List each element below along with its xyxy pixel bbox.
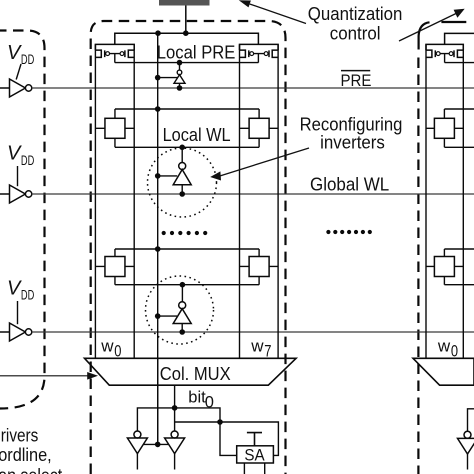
- arrow annotation to middle bus bar: [239, 0, 306, 23]
- bitline BLB0: [133, 44, 135, 358]
- svg-text:SA: SA: [244, 445, 265, 464]
- quantization column through MUX to bottom: [157, 358, 159, 444]
- svg-text:V: V: [7, 143, 22, 165]
- svg-text:w: w: [437, 336, 451, 355]
- SA output leads: [244, 463, 264, 474]
- local WL box row 2 (wires y=249 and y=284.7): [115, 249, 259, 285]
- svg-text:w: w: [250, 336, 264, 355]
- label Quantization control: [308, 3, 403, 44]
- label w7 (middle cell): [250, 336, 271, 360]
- quantization control bus bar (gray): [159, 0, 210, 6]
- right group bottom inverter U9: [458, 409, 474, 470]
- svg-text:w: w: [100, 336, 114, 355]
- wire column-select into Col MUX with arrowhead: [0, 372, 98, 380]
- quantization control column (x=157.7): [157, 33, 159, 444]
- wire bitb to SA (y=422): [175, 422, 279, 455]
- bitline BL0 (left column of middle cell): [94, 44, 96, 358]
- precharge transistor pair PT3 (right group): [426, 44, 463, 62]
- SRAM cell C2 (row1 w7): [240, 118, 279, 138]
- svg-text:Local WL: Local WL: [163, 124, 231, 145]
- reconfiguring inverter U6 (row2) dotted circle: [146, 276, 214, 344]
- reconfiguring inverter U6: [155, 282, 191, 335]
- svg-text:control: control: [330, 23, 381, 44]
- svg-text:ordline,: ordline,: [0, 445, 52, 465]
- SRAM cell C1 (row1 w0): [95, 118, 134, 138]
- bitline BLB7: [277, 44, 279, 358]
- wire global row2 WL (y=332): [32, 331, 474, 333]
- svg-text:V: V: [7, 277, 22, 299]
- arrow annotation to right group rail: [399, 9, 465, 41]
- left driver group dashed border: [0, 31, 45, 409]
- VDD lead to driver inverter U3: [17, 301, 19, 324]
- junction dot rail/quantization column: [155, 30, 161, 36]
- svg-text:Col. MUX: Col. MUX: [160, 363, 231, 384]
- svg-text:DD: DD: [21, 52, 35, 67]
- bitline right group BLB0: [462, 44, 464, 358]
- driver inverter U2 (Global WL driver): [0, 185, 32, 203]
- label w0 (middle cell): [100, 336, 121, 360]
- bitline right group BL0: [425, 44, 427, 358]
- node: quantization rail (y=33.2): [115, 33, 259, 44]
- local PRE inverter U4: [155, 60, 185, 91]
- label Drivers text (cut at left edge): [0, 425, 62, 474]
- wire MUX output to bit0: [174, 385, 176, 431]
- junction dot quantization/bottom inverters: [155, 442, 161, 448]
- Col MUX trapezoid (middle cell): [85, 358, 297, 385]
- driver inverter U3: [0, 323, 32, 341]
- svg-text:Quantization: Quantization: [308, 3, 403, 24]
- label PRE with overline: [341, 71, 372, 90]
- reconfiguring inverter U5: [155, 145, 191, 197]
- right group rail: [445, 33, 474, 44]
- bottom inverter U8: [165, 431, 185, 470]
- middle cell group dashed border: [91, 21, 286, 474]
- right cell group dashed border: [441, 21, 466, 23]
- label VDD 2: [7, 143, 34, 168]
- svg-text:DD: DD: [21, 288, 35, 303]
- svg-text:bit: bit: [188, 388, 206, 406]
- wire quantization to bottom inverters: [143, 443, 168, 445]
- reconfiguring inverter U5 (row1) dotted circle: [148, 148, 217, 217]
- ellipsis dots between groups: [326, 230, 372, 234]
- arrow annotation reconfiguring inverters: [210, 148, 309, 181]
- svg-text:7: 7: [264, 341, 271, 360]
- right group local WL box row1: [444, 109, 474, 147]
- ellipsis dots middle cell: [162, 231, 208, 235]
- label VDD 1: [7, 42, 34, 67]
- svg-text:DD: DD: [21, 153, 35, 168]
- driver inverter U1 (PRE driver): [0, 79, 32, 97]
- svg-text:inverters: inverters: [320, 132, 385, 153]
- wire right group local PRE: [445, 62, 474, 64]
- precharge transistor pair PT1 (left column): [95, 44, 134, 62]
- sense amp SA box: [237, 445, 274, 464]
- VDD lead to driver inverter U2: [17, 166, 19, 186]
- svg-text:0: 0: [114, 341, 121, 360]
- bottom inverter U7: [127, 431, 147, 470]
- SRAM cell C4 (row2 w7): [240, 257, 279, 277]
- VDD lead to driver inverter U1: [16, 64, 21, 80]
- wire bit0 (y=407.9): [137, 408, 220, 431]
- svg-text:Global WL: Global WL: [310, 174, 389, 195]
- junction dot bit0/MUX output: [172, 405, 178, 411]
- wire Global WL (y=194): [32, 193, 474, 195]
- SA enable tee: [247, 433, 262, 446]
- label w0 (right group): [437, 336, 458, 360]
- label Reconfiguring inverters: [300, 113, 403, 152]
- svg-text:Local PRE: Local PRE: [157, 42, 236, 63]
- precharge transistor pair PT2 (right column): [240, 44, 279, 62]
- junction dot row2 box / quantization column: [155, 246, 161, 252]
- svg-text:PRE: PRE: [341, 71, 372, 90]
- Col MUX trapezoid (right group): [413, 358, 474, 385]
- svg-text:0: 0: [451, 341, 458, 360]
- wire Local PRE gate line (y=62.6): [115, 62, 259, 64]
- label VDD 3: [7, 277, 34, 302]
- label bit0: [188, 388, 214, 411]
- junction dot y=422 wire: [217, 419, 223, 425]
- SRAM cell C3 (row2 w0): [95, 257, 134, 277]
- svg-text:V: V: [7, 42, 22, 64]
- SRAM cell C5 (right group row1): [426, 118, 463, 138]
- SRAM cell C6 (right group row2): [426, 257, 463, 277]
- wire from bus bar to rail: [185, 6, 187, 34]
- wire PRE (global, y=88): [32, 87, 474, 89]
- junction dot row1 box / quantization column: [155, 106, 161, 112]
- svg-text:0: 0: [205, 394, 214, 412]
- local WL box row 1 (wires y=109 and y=147.3): [115, 109, 259, 147]
- svg-text:rivers: rivers: [1, 425, 39, 445]
- bitline BL7: [239, 44, 241, 358]
- right group local WL box row2: [444, 249, 474, 285]
- junction dot rail/bus bar: [183, 30, 189, 36]
- svg-text:an select: an select: [0, 466, 62, 474]
